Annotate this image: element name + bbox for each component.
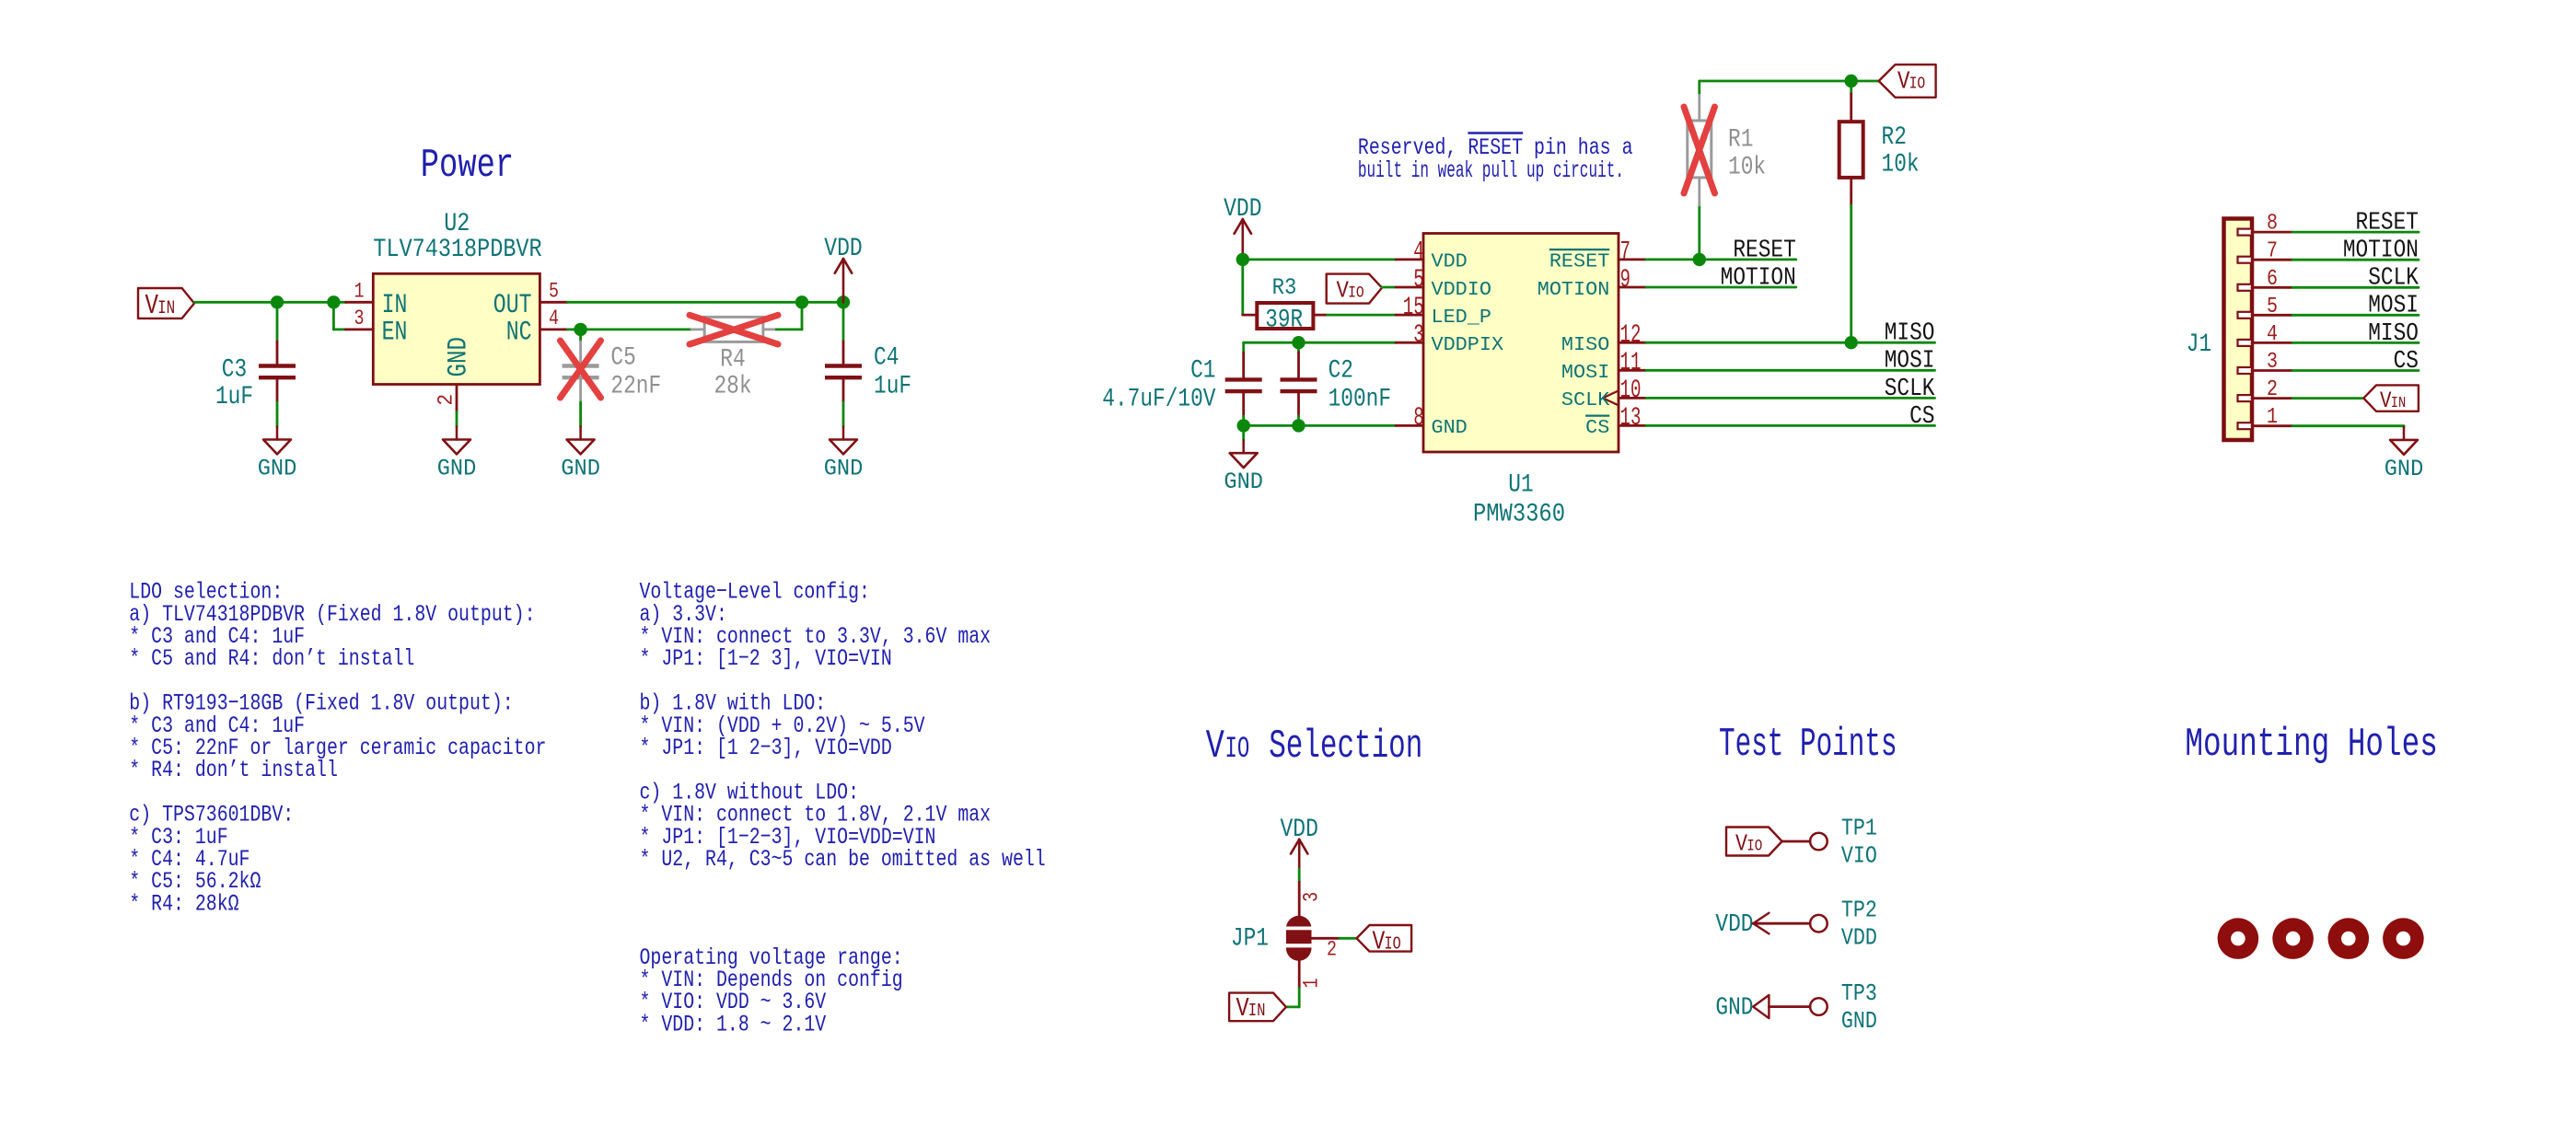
wire U2 GND to ground	[456, 412, 458, 427]
svg-text:TLV74318PDBVR: TLV74318PDBVR	[373, 235, 541, 263]
wire R3 to U1 pin 15	[1328, 314, 1396, 317]
svg-text:GND: GND	[2385, 457, 2424, 482]
svg-text:IN: IN	[157, 297, 175, 318]
svg-text:VDD: VDD	[824, 234, 862, 263]
svg-text:8: 8	[1413, 404, 1424, 433]
U1 pin 12 MISO	[1619, 342, 1646, 344]
svg-text:CS: CS	[2394, 347, 2419, 375]
svg-text:* R4: 28kΩ: * R4: 28kΩ	[129, 890, 239, 917]
wire J1 pin 2 to VIN	[2292, 397, 2363, 400]
J1 pin 2	[2238, 395, 2253, 401]
svg-text:5: 5	[549, 279, 559, 304]
svg-text:IO: IO	[1909, 74, 1926, 93]
junction node at C3	[271, 295, 284, 308]
JP1 pin 3	[1298, 882, 1301, 916]
svg-text:GND: GND	[1715, 994, 1753, 1022]
svg-text:R2: R2	[1882, 122, 1907, 152]
svg-text:IO: IO	[1225, 733, 1250, 766]
svg-text:V: V	[1373, 926, 1386, 956]
svg-text:VDD: VDD	[1224, 194, 1261, 224]
ground symbol below U2	[456, 427, 458, 440]
U2 pin 1 IN	[346, 301, 374, 304]
global label VIO top	[1879, 64, 1936, 98]
power symbol VDD output	[842, 259, 845, 302]
wire VDD down to R3	[1241, 260, 1244, 315]
junction node R4/OUT	[795, 295, 808, 308]
power symbol VDD at U1	[1242, 219, 1245, 260]
wire VDD to JP1 pin 3	[1298, 869, 1301, 882]
junction node IN/EN	[327, 295, 340, 308]
svg-text:MOSI: MOSI	[1885, 347, 1935, 375]
svg-text:MOTION: MOTION	[1721, 264, 1796, 292]
resistor R1 (DNP)	[1698, 205, 1700, 260]
svg-text:MISO: MISO	[1885, 319, 1935, 347]
svg-text:1uF: 1uF	[215, 382, 253, 411]
svg-text:MISO: MISO	[2368, 319, 2419, 347]
svg-text:1: 1	[2267, 405, 2278, 430]
svg-text:13: 13	[1620, 404, 1642, 433]
ground symbol at J1	[2403, 427, 2406, 440]
wire R4 riser	[801, 302, 804, 330]
capacitor C4	[842, 302, 845, 342]
ground symbol below C5	[579, 427, 582, 440]
svg-text:IN: IN	[2391, 394, 2407, 412]
wire OUT to VDD node	[567, 301, 843, 304]
svg-text:* JP1: [1−2 3], VIO=VIN: * JP1: [1−2 3], VIO=VIN	[640, 645, 892, 672]
junction node NC/C5	[574, 323, 586, 336]
mounting hole H4	[2383, 918, 2424, 959]
svg-text:VDD: VDD	[1841, 925, 1877, 952]
svg-text:6: 6	[2267, 266, 2278, 291]
svg-text:NC: NC	[506, 318, 532, 348]
U1 pin 13 CS	[1619, 424, 1646, 427]
svg-text:SCLK: SCLK	[1561, 390, 1610, 412]
svg-text:3: 3	[354, 307, 365, 331]
mounting hole H3	[2328, 918, 2370, 959]
U1 pin 9 MOTION	[1619, 286, 1646, 289]
global label VIO at U1 VDDIO	[1327, 274, 1382, 304]
U1 pin 11 MOSI	[1619, 369, 1646, 372]
power label VIN at JP1	[1229, 993, 1286, 1022]
svg-text:C3: C3	[222, 355, 247, 385]
power input label VIN	[138, 288, 194, 318]
wire MISO net	[1646, 342, 1935, 344]
wire RESET net	[1646, 258, 1796, 261]
svg-text:VDDIO: VDDIO	[1432, 279, 1491, 301]
sensor U1 PMW3360	[1423, 234, 1619, 453]
test point TP1	[1782, 840, 1811, 843]
wire EN jog	[332, 302, 335, 330]
test point TP3	[1769, 1005, 1810, 1008]
svg-text:IO: IO	[1385, 935, 1401, 955]
svg-text:IN: IN	[1248, 1002, 1266, 1022]
junction node C2 bottom	[1292, 419, 1305, 432]
J1 pin 3 CS	[2238, 367, 2253, 374]
svg-text:C4: C4	[874, 343, 899, 373]
mounting hole H1	[2218, 918, 2259, 959]
wire NC to R4	[567, 328, 691, 330]
wire J1 pin 1 to ground	[2292, 424, 2404, 427]
svg-text:GND: GND	[1432, 418, 1468, 440]
U2 pin 4 NC	[540, 328, 567, 330]
power label VIN at J1	[2363, 385, 2419, 411]
svg-text:1uF: 1uF	[874, 372, 911, 401]
svg-text:U1: U1	[1508, 470, 1533, 500]
svg-text:MOSI: MOSI	[1561, 362, 1609, 384]
svg-text:built in weak pull up circuit.: built in weak pull up circuit.	[1358, 157, 1624, 184]
svg-text:R4: R4	[720, 345, 745, 375]
svg-text:VDD: VDD	[1281, 815, 1318, 844]
capacitor C3	[276, 302, 279, 342]
wire J1 RESET	[2292, 231, 2419, 234]
svg-text:Power: Power	[421, 143, 514, 188]
svg-text:U2: U2	[444, 209, 470, 237]
svg-text:1: 1	[1300, 979, 1325, 989]
J1 pin 1	[2238, 423, 2253, 429]
svg-text:1: 1	[354, 279, 365, 304]
global label VIO at JP1	[1357, 925, 1412, 952]
U1 pin 7 RESET	[1619, 258, 1646, 261]
svg-text:* JP1: [1 2−3], VIO=VDD: * JP1: [1 2−3], VIO=VDD	[640, 735, 892, 761]
svg-text:C2: C2	[1329, 356, 1353, 386]
wire VDD to U1 pin 4	[1243, 258, 1396, 261]
svg-text:GND: GND	[258, 457, 297, 482]
power symbol VDD at JP1	[1298, 840, 1301, 869]
svg-text:PMW3360: PMW3360	[1473, 500, 1565, 528]
svg-text:RESET: RESET	[2356, 209, 2419, 237]
svg-text:4.7uF/10V: 4.7uF/10V	[1102, 385, 1216, 414]
svg-text:IO: IO	[1348, 284, 1364, 301]
svg-text:39R: 39R	[1265, 305, 1303, 334]
junction node R1/RESET	[1693, 253, 1706, 266]
wire J1 MOTION	[2292, 259, 2419, 261]
wire CS net	[1646, 424, 1935, 427]
U1 pin 3 VDDPIX	[1396, 342, 1423, 344]
svg-text:3: 3	[1413, 321, 1424, 350]
svg-text:2: 2	[2267, 377, 2278, 402]
svg-text:VDD: VDD	[1715, 911, 1753, 939]
svg-text:10k: 10k	[1728, 152, 1766, 181]
wire top VIO rail	[1700, 80, 1879, 83]
svg-text:12: 12	[1620, 321, 1642, 350]
U1 pin 8 GND	[1396, 424, 1423, 427]
svg-text:GND: GND	[1841, 1009, 1877, 1036]
svg-text:TP1: TP1	[1841, 816, 1877, 842]
J1 pin 7 MOTION	[2238, 257, 2253, 263]
svg-text:R3: R3	[1272, 275, 1297, 302]
U2 pin 5 OUT	[540, 301, 567, 304]
wire J1 SCLK	[2292, 286, 2419, 289]
svg-text:OUT: OUT	[493, 290, 532, 320]
svg-text:15: 15	[1403, 294, 1424, 322]
wire VIN to U2 IN pin	[194, 301, 346, 304]
svg-text:VDD: VDD	[1432, 251, 1468, 273]
svg-text:GND: GND	[824, 457, 864, 482]
junction node R2 top	[1845, 75, 1858, 87]
junction node C1 bottom	[1237, 419, 1250, 432]
svg-text:100nF: 100nF	[1329, 385, 1391, 414]
resistor R2	[1850, 81, 1852, 94]
svg-text:MOSI: MOSI	[2368, 292, 2419, 319]
svg-text:R1: R1	[1728, 125, 1753, 155]
svg-text:28k: 28k	[714, 372, 751, 401]
U1 pin 5 VDDIO	[1396, 286, 1423, 289]
svg-text:SCLK: SCLK	[2368, 264, 2419, 292]
wire down to ground	[1242, 425, 1245, 440]
U1 pin 10 SCLK	[1619, 397, 1646, 400]
junction node C2 top	[1292, 336, 1305, 349]
wire VIO to U1 pin 5	[1382, 286, 1396, 289]
svg-text:2: 2	[434, 394, 458, 406]
svg-text:10: 10	[1620, 376, 1642, 405]
capacitor C5 (DNP)	[579, 330, 582, 342]
U2 pin 2 GND	[456, 385, 458, 412]
svg-text:J1: J1	[2187, 330, 2211, 359]
svg-text:* C5 and R4: don’t install: * C5 and R4: don’t install	[129, 645, 414, 672]
svg-text:4: 4	[549, 307, 559, 331]
svg-text:2: 2	[1327, 938, 1337, 963]
svg-text:* U2, R4, C3~5 can be omitted: * U2, R4, C3~5 can be omitted as well	[640, 846, 1046, 873]
svg-text:EN: EN	[382, 318, 408, 348]
U2 pin 3 EN	[346, 328, 374, 330]
svg-text:LED_P: LED_P	[1432, 307, 1491, 329]
svg-text:IN: IN	[382, 290, 408, 320]
regulator U2 TLV74318PDBVR	[373, 273, 540, 384]
ground symbol below C4	[842, 427, 845, 440]
svg-text:7: 7	[2267, 238, 2278, 263]
svg-text:V: V	[1206, 724, 1225, 769]
svg-text:3: 3	[2267, 349, 2278, 374]
global label VIO at TP1	[1726, 828, 1782, 856]
J1 pin 6 SCLK	[2238, 284, 2253, 291]
svg-text:GND: GND	[1224, 470, 1263, 496]
svg-text:10k: 10k	[1882, 150, 1920, 180]
capacitor C2	[1297, 342, 1300, 353]
resistor R3	[1243, 314, 1257, 317]
wire MOTION net	[1646, 286, 1796, 289]
junction node VDD/U1	[1236, 253, 1249, 266]
ground symbol below C1	[1242, 440, 1245, 453]
wire JP1 pin1 to VIN	[1298, 989, 1301, 1007]
svg-text:GND: GND	[444, 337, 474, 376]
connector J1	[2224, 219, 2253, 441]
U1 pin 15 LED_P	[1396, 314, 1423, 317]
svg-text:* VDD: 1.8 ~ 2.1V: * VDD: 1.8 ~ 2.1V	[640, 1011, 827, 1037]
svg-text:IO: IO	[1746, 837, 1762, 855]
ground symbol below C3	[276, 427, 279, 440]
svg-text:CS: CS	[1909, 402, 1934, 430]
svg-text:C5: C5	[610, 343, 635, 373]
svg-text:GND: GND	[561, 457, 600, 482]
svg-text:3: 3	[1300, 892, 1325, 902]
svg-text:5: 5	[1413, 266, 1424, 295]
svg-text:* R4: don’t install: * R4: don’t install	[129, 757, 338, 783]
U1 pin 4 VDD	[1396, 258, 1423, 261]
svg-text:22nF: 22nF	[610, 372, 661, 401]
capacitor C1	[1242, 353, 1245, 377]
svg-text:MOTION: MOTION	[1537, 279, 1610, 301]
svg-text:RESET: RESET	[1549, 251, 1610, 273]
wire GND rail to U1 pin 8	[1244, 424, 1396, 427]
wire MOSI net	[1646, 369, 1935, 372]
svg-text:V: V	[2380, 388, 2392, 413]
mounting hole H2	[2272, 918, 2314, 959]
svg-text:MOTION: MOTION	[2343, 237, 2419, 264]
wire R2 to MISO	[1850, 205, 1852, 342]
svg-text:RESET: RESET	[1733, 237, 1795, 264]
wire J1 CS	[2292, 369, 2419, 372]
wire J1 MOSI	[2292, 314, 2419, 317]
solder jumper JP1	[1286, 916, 1312, 961]
svg-text:4: 4	[2267, 321, 2278, 346]
svg-text:9: 9	[1620, 266, 1631, 295]
svg-text:TP2: TP2	[1841, 898, 1877, 924]
svg-text:TP3: TP3	[1841, 981, 1877, 1008]
svg-text:GND: GND	[437, 457, 477, 482]
J1 pin 8 RESET	[2238, 229, 2253, 236]
JP1 pin 2	[1312, 937, 1340, 940]
svg-text:7: 7	[1620, 238, 1631, 267]
svg-text:8: 8	[2267, 211, 2278, 236]
svg-text:SCLK: SCLK	[1885, 375, 1935, 402]
svg-text:C1: C1	[1190, 356, 1215, 386]
test point TP2	[1753, 922, 1810, 925]
svg-text:JP1: JP1	[1231, 924, 1269, 954]
resistor R4 (DNP)	[691, 328, 704, 330]
junction node VDD/C4	[837, 295, 850, 308]
svg-text:MISO: MISO	[1561, 334, 1609, 356]
svg-text:CS: CS	[1585, 418, 1609, 440]
wire VDDPIX	[1244, 342, 1396, 344]
svg-text:Selection: Selection	[1269, 724, 1422, 769]
wire SCLK net	[1646, 397, 1935, 400]
J1 pin 5 MOSI	[2238, 312, 2253, 318]
JP1 pin 1	[1298, 961, 1301, 989]
svg-text:V: V	[1897, 68, 1910, 96]
svg-text:VIO: VIO	[1841, 843, 1877, 870]
svg-text:4: 4	[1413, 238, 1424, 267]
svg-text:11: 11	[1620, 349, 1642, 377]
svg-text:VDDPIX: VDDPIX	[1432, 334, 1504, 356]
wire J1 MISO	[2292, 342, 2419, 344]
junction node R2/MISO	[1845, 336, 1858, 349]
svg-text:Test Points: Test Points	[1719, 723, 1897, 768]
svg-text:5: 5	[2267, 294, 2278, 318]
svg-text:Mounting Holes: Mounting Holes	[2185, 722, 2437, 768]
J1 pin 4 MISO	[2238, 340, 2253, 346]
